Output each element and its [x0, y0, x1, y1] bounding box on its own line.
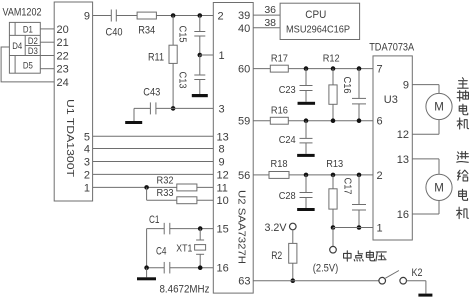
- wire C43 to ground: [134, 107, 150, 109]
- svg-text:13: 13: [217, 131, 229, 143]
- svg-text:R18: R18: [271, 158, 288, 170]
- wire U1 pin 3 to U2 pin 9: [93, 161, 214, 163]
- IC U3 TDA7073A body: [373, 56, 412, 240]
- svg-text:R13: R13: [326, 158, 343, 170]
- wire U1 pin 2 to U2 pin 12: [93, 173, 214, 175]
- wire C1 left: [147, 228, 165, 230]
- wire U3 pin 9 to motor M1: [412, 84, 439, 86]
- svg-text:D3: D3: [28, 46, 38, 57]
- svg-text:21: 21: [57, 37, 69, 49]
- svg-text:(2.5V): (2.5V): [313, 263, 339, 275]
- wire D1 to U1 pin 20: [40, 28, 54, 30]
- capacitor C13: [194, 74, 205, 76]
- wire C24 to ground: [305, 143, 307, 154]
- pickup block outer box: [9, 22, 40, 73]
- svg-text:1: 1: [377, 223, 383, 235]
- wire U2 pin 59 to R16: [253, 120, 270, 122]
- label spindle motor (Chinese) 机: [457, 118, 468, 129]
- midpoint voltage terminal: [330, 246, 337, 253]
- svg-text:TDA7073A: TDA7073A: [369, 42, 415, 54]
- junction node L2: [331, 173, 336, 178]
- wire L2 down to R13: [332, 175, 334, 189]
- svg-text:C1: C1: [149, 214, 160, 226]
- junction node M: [331, 225, 336, 230]
- capacitor C15: [194, 31, 205, 33]
- svg-text:D5: D5: [23, 60, 33, 71]
- wire C40 to R34: [116, 15, 137, 17]
- crystal XT1: [196, 239, 204, 241]
- wire node F down to XT1: [199, 229, 201, 240]
- label midpoint voltage (Chinese) 中: [344, 251, 351, 261]
- pickup D1 left edge: [14, 22, 16, 35]
- svg-text:24: 24: [57, 77, 69, 89]
- svg-text:60: 60: [238, 64, 250, 76]
- wire node D to U2 pin 3: [173, 107, 213, 109]
- pickup D4 right edge: [24, 35, 26, 55]
- svg-text:C40: C40: [106, 27, 123, 39]
- svg-text:7: 7: [377, 64, 383, 76]
- svg-text:9: 9: [403, 80, 409, 92]
- feed motor M2: [426, 174, 452, 200]
- pickup D2/D3 divider: [25, 45, 40, 47]
- svg-text:R34: R34: [138, 24, 155, 36]
- svg-text:U3: U3: [384, 94, 398, 106]
- wire node C to U2 pin 1: [200, 54, 214, 56]
- wire D4 loop to U1 pin 24: [1, 47, 54, 82]
- ground at crystal: [137, 277, 156, 280]
- junction node D: [171, 106, 176, 111]
- wire node D to C43: [156, 107, 173, 109]
- 3.2V terminal: [290, 223, 297, 230]
- wire R16 to U3 pin 6: [288, 120, 373, 122]
- wire node M to U3 pin 1: [333, 227, 373, 229]
- resistor R32: [177, 184, 197, 191]
- svg-text:R2: R2: [271, 250, 282, 262]
- label spindle motor (Chinese) 轴: [457, 90, 468, 101]
- wire D3 to U1 pin 22: [40, 55, 54, 57]
- junction node J3: [357, 66, 362, 71]
- svg-text:D1: D1: [23, 25, 33, 36]
- svg-text:8.4672MHz: 8.4672MHz: [160, 284, 210, 296]
- wire node H to ground: [146, 268, 148, 278]
- junction node E: [144, 185, 149, 190]
- wire U2 pin 39 to CPU pin 36: [253, 14, 280, 16]
- wire C16 down to row 59: [358, 104, 360, 121]
- resistor R2: [289, 243, 297, 263]
- capacitor C24: [300, 137, 313, 139]
- svg-text:11: 11: [217, 182, 228, 194]
- svg-text:R33: R33: [157, 187, 174, 199]
- wire C4 to node G: [170, 267, 214, 269]
- label midpoint voltage (Chinese) 压: [376, 252, 386, 261]
- junction node K1: [304, 118, 309, 123]
- svg-text:R16: R16: [271, 105, 288, 117]
- wire U2 pin 63 to switch K2: [253, 280, 379, 282]
- svg-text:2: 2: [84, 169, 90, 181]
- svg-text:R12: R12: [323, 53, 340, 65]
- svg-text:C24: C24: [279, 134, 296, 146]
- wire node A down to R11: [172, 16, 174, 46]
- wire R33 to U2 pin 10: [197, 199, 213, 201]
- wire J1 down to C23: [305, 69, 307, 86]
- svg-text:D4: D4: [12, 41, 22, 52]
- resistor R18: [269, 172, 289, 179]
- svg-text:1: 1: [219, 50, 225, 62]
- junction node L1: [304, 173, 309, 178]
- svg-text:3.2V: 3.2V: [265, 222, 288, 234]
- svg-text:59: 59: [238, 116, 250, 128]
- wire 3.2V to R2: [292, 230, 294, 244]
- svg-text:5: 5: [84, 131, 90, 143]
- svg-text:15: 15: [217, 224, 229, 236]
- ground at C28: [297, 208, 315, 211]
- wire K2 to ground: [407, 280, 426, 282]
- svg-text:C13: C13: [177, 72, 189, 89]
- wire C23 to ground: [305, 91, 307, 102]
- svg-text:16: 16: [397, 209, 409, 221]
- wire R13 down to node M: [332, 209, 334, 227]
- svg-text:M: M: [434, 102, 444, 114]
- capacitor C43: [149, 102, 151, 114]
- wire C15 to node C: [199, 36, 201, 55]
- wire node M down to midpoint terminal: [332, 228, 334, 247]
- wire U3 pin 13 to motor M2: [412, 158, 439, 160]
- resistor R13: [329, 189, 337, 209]
- wire R32 to U2 pin 11: [197, 186, 213, 188]
- svg-text:22: 22: [57, 51, 69, 63]
- wire U3 pin 12 to motor M1: [412, 133, 439, 135]
- spindle motor M1: [426, 93, 452, 119]
- label feed motor (Chinese) 机: [457, 207, 469, 219]
- wire C4 left: [147, 267, 165, 269]
- svg-text:VAM1202: VAM1202: [3, 6, 42, 18]
- svg-text:C15: C15: [177, 26, 189, 43]
- wire J2 down to R12: [332, 69, 334, 85]
- wire node C down to C13: [199, 55, 201, 75]
- wire R2 to row 63: [292, 263, 294, 281]
- wire U1 pin 1 to R32: [93, 186, 177, 188]
- CPU U4 MSU2964C16P body: [280, 3, 360, 39]
- label midpoint voltage (Chinese) 电: [366, 251, 374, 261]
- wire D2 to U1 pin 21: [40, 41, 54, 43]
- svg-text:XT1: XT1: [176, 243, 192, 255]
- svg-text:4: 4: [84, 144, 90, 156]
- capacitor C23: [300, 85, 313, 87]
- svg-text:C28: C28: [279, 190, 296, 202]
- svg-text:2: 2: [377, 170, 383, 182]
- wire R12 down to row 59: [332, 104, 334, 120]
- wire left rail C1 to C4: [146, 229, 148, 268]
- svg-text:12: 12: [217, 169, 229, 181]
- svg-text:40: 40: [238, 23, 250, 35]
- wire node B down to C15: [199, 16, 201, 32]
- svg-text:C4: C4: [156, 245, 167, 257]
- svg-text:56: 56: [238, 170, 250, 182]
- wire C1 to node F: [170, 228, 214, 230]
- resistor R34: [137, 12, 156, 19]
- wire node E down to R33 row: [146, 187, 148, 200]
- ground at C23: [298, 102, 316, 105]
- svg-text:U1 TDA1300T: U1 TDA1300T: [64, 99, 75, 177]
- junction node B: [198, 13, 203, 18]
- svg-text:9: 9: [84, 11, 90, 23]
- wire R18 to U3 pin 2: [289, 174, 373, 176]
- svg-text:R11: R11: [148, 51, 164, 63]
- svg-text:8: 8: [219, 144, 225, 156]
- label spindle motor (Chinese) 主: [458, 78, 469, 88]
- capacitor C1: [163, 223, 165, 235]
- label feed motor (Chinese) 电: [459, 189, 468, 200]
- capacitor C28: [300, 192, 313, 194]
- wire L3 down to C17: [358, 175, 360, 205]
- junction node N: [357, 225, 362, 230]
- svg-text:63: 63: [238, 276, 250, 288]
- junction node J2: [331, 66, 336, 71]
- svg-text:M: M: [434, 183, 444, 195]
- wire C17 down to node N: [358, 210, 360, 228]
- pickup divider above D5: [9, 55, 40, 57]
- svg-text:10: 10: [217, 195, 229, 207]
- label feed motor (Chinese) 进: [457, 151, 469, 162]
- svg-text:C16: C16: [341, 77, 353, 94]
- label midpoint voltage (Chinese) 点: [354, 251, 363, 261]
- wire U2 pin 60 to R17: [253, 68, 270, 70]
- ground at C13: [192, 94, 208, 97]
- junction node J1: [304, 66, 309, 71]
- svg-text:R32: R32: [157, 174, 174, 186]
- junction node C: [198, 53, 203, 58]
- IC U1 TDA1300T body: [54, 2, 92, 201]
- capacitor C40: [110, 10, 112, 22]
- wire C13 to ground: [199, 80, 201, 95]
- junction node L3: [357, 173, 362, 178]
- capacitor C4: [163, 262, 165, 274]
- IC U2 SAA7327H body: [213, 3, 253, 294]
- capacitor C17: [352, 204, 366, 206]
- ground at C24: [297, 154, 315, 157]
- svg-text:23: 23: [57, 64, 69, 76]
- wire U1 pin 4 to U2 pin 8: [93, 148, 214, 150]
- pickup divider under D1: [9, 34, 40, 36]
- wire R34 to U2 pin 2: [156, 15, 213, 17]
- svg-text:1: 1: [84, 182, 90, 194]
- wire R11 down to node D: [172, 63, 174, 108]
- wire U2 pin 56 to R18: [253, 174, 269, 176]
- svg-text:3: 3: [84, 157, 90, 169]
- svg-text:2: 2: [218, 11, 224, 23]
- svg-text:K2: K2: [412, 267, 423, 279]
- svg-text:6: 6: [377, 116, 383, 128]
- svg-text:39: 39: [238, 10, 250, 22]
- junction node G: [198, 265, 203, 270]
- ground at C43: [125, 121, 142, 124]
- svg-text:13: 13: [397, 154, 409, 166]
- svg-text:36: 36: [264, 4, 276, 16]
- resistor R17: [270, 65, 288, 72]
- wire U3 pin 16 to motor M2: [412, 213, 439, 215]
- resistor R16: [270, 117, 288, 124]
- junction node K3: [357, 118, 362, 123]
- wire D5 to U1 pin 23: [40, 68, 54, 70]
- capacitor C16: [352, 97, 366, 99]
- resistor R12: [329, 85, 337, 104]
- svg-text:9: 9: [219, 157, 225, 169]
- wire node E to R33: [147, 199, 177, 201]
- svg-text:12: 12: [397, 129, 409, 141]
- junction node F: [198, 226, 203, 231]
- wire U1 pin 5 to U2 pin 13: [93, 135, 214, 137]
- wire K1 down to C24: [305, 121, 307, 139]
- wire L1 down to C28: [305, 175, 307, 193]
- junction node A: [171, 13, 176, 18]
- wire U2 pin 40 to CPU pin 38: [253, 27, 280, 29]
- resistor R11: [169, 45, 177, 63]
- resistor R33: [177, 197, 197, 204]
- wire U1 pin 9 to C40: [93, 15, 112, 17]
- svg-text:20: 20: [57, 24, 69, 36]
- junction node H: [144, 265, 149, 270]
- pickup D5 left edge: [14, 56, 16, 74]
- wire J3 down to C16: [358, 69, 360, 99]
- svg-text:MSU2964C16P: MSU2964C16P: [286, 25, 350, 36]
- label spindle motor (Chinese) 电: [459, 104, 468, 115]
- wire R17 to U3 pin 7: [288, 68, 373, 70]
- svg-text:CPU: CPU: [305, 9, 326, 21]
- svg-text:U2 SAA7327H: U2 SAA7327H: [236, 190, 247, 264]
- svg-text:C23: C23: [279, 84, 296, 96]
- wire C28 to ground: [305, 198, 307, 209]
- svg-text:C43: C43: [143, 87, 160, 99]
- ground at K2: [418, 294, 432, 297]
- junction node K2j: [331, 118, 336, 123]
- svg-text:38: 38: [264, 17, 276, 29]
- svg-text:16: 16: [217, 263, 229, 275]
- junction node P: [291, 278, 296, 283]
- svg-text:3: 3: [219, 103, 225, 115]
- switch K2: [379, 277, 386, 284]
- svg-text:C17: C17: [341, 178, 353, 195]
- label feed motor (Chinese) 给: [458, 170, 468, 181]
- svg-text:R17: R17: [271, 53, 288, 65]
